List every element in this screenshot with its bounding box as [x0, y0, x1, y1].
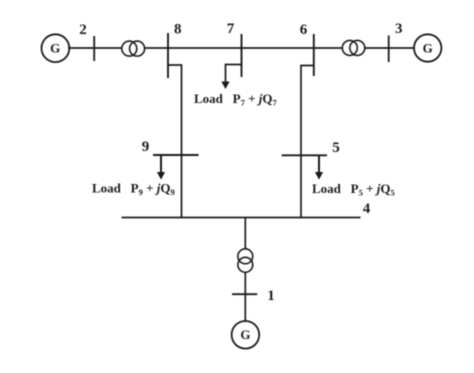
svg-text:9: 9: [142, 139, 150, 155]
svg-text:7: 7: [227, 21, 235, 37]
svg-text:3: 3: [395, 21, 403, 37]
generator G1 (bottom): [232, 321, 260, 349]
bus 1 tick: [232, 293, 257, 295]
wire: jog from bus 8 to line 8-9: [168, 65, 182, 218]
transformer T3: [342, 40, 365, 55]
generator G3 (right): [414, 34, 441, 61]
load arrow at bus 9: [160, 155, 162, 173]
svg-text:6: 6: [300, 22, 308, 38]
wire: transformer T1 to generator G1: [244, 272, 246, 321]
svg-text:5: 5: [332, 140, 340, 156]
load arrow at bus 7: [221, 82, 229, 90]
bus 8 bar: [167, 33, 169, 78]
wire: transformer T2 across buses 8,7,6 to transformer T3: [145, 47, 343, 49]
bus 9 bar: [153, 154, 199, 156]
wire: jog from bus 6 to line 6-5: [301, 66, 314, 219]
svg-text:Load P7 + jQ7: Load P7 + jQ7: [194, 91, 278, 108]
bus 3 tick: [388, 36, 390, 63]
bus 2 tick: [93, 36, 95, 61]
svg-text:2: 2: [79, 22, 87, 38]
wire: bus 4 down to transformer T1: [244, 218, 246, 250]
bus 6 bar: [313, 34, 315, 76]
transformer T1: [238, 249, 253, 272]
svg-text:1: 1: [267, 288, 275, 304]
bus 4 line: [122, 217, 361, 219]
wire: transformer T3 to generator G3: [364, 47, 414, 49]
generator G2 (left): [42, 34, 70, 62]
load arrow at bus 5: [318, 155, 320, 173]
bus 7 bar: [241, 34, 243, 77]
bus 5 bar: [282, 154, 327, 156]
svg-text:4: 4: [363, 201, 371, 217]
wire: generator G2 to transformer T2: [68, 47, 122, 49]
svg-text:Load P5 + jQ5: Load P5 + jQ5: [312, 181, 395, 198]
svg-text:8: 8: [174, 22, 182, 38]
wire: jog from bus 7 to load arrow: [226, 65, 242, 82]
transformer T2: [122, 41, 145, 56]
svg-text:G: G: [240, 327, 250, 342]
svg-text:G: G: [50, 41, 60, 56]
svg-text:G: G: [423, 41, 433, 56]
svg-text:Load P9 + jQ9: Load P9 + jQ9: [92, 181, 175, 198]
